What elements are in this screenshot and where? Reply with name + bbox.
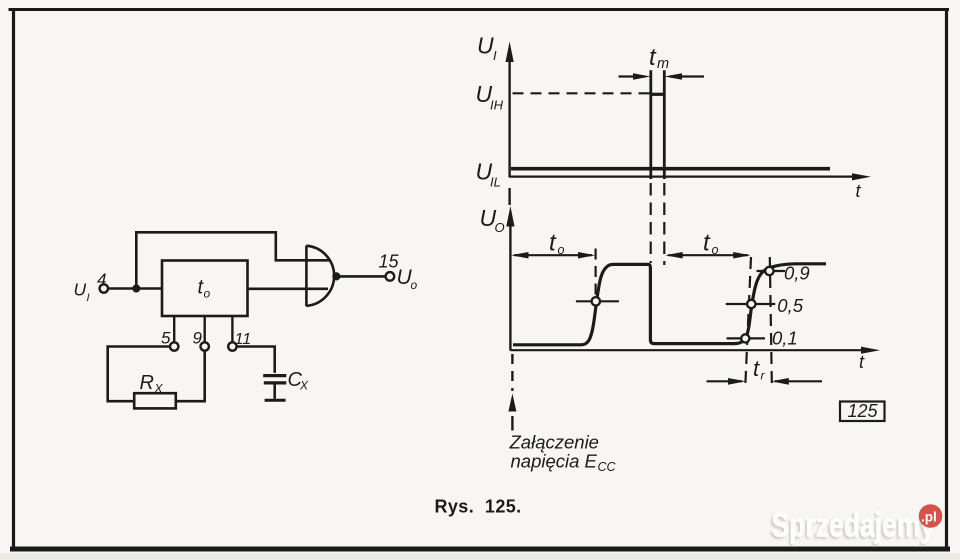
capacitor lead — [273, 383, 276, 399]
gate G1 flat edge — [305, 246, 308, 307]
pin 9 terminal — [201, 342, 209, 350]
pulse left edge — [649, 70, 652, 179]
svg-text:o: o — [204, 287, 211, 301]
svg-text:o: o — [558, 243, 565, 257]
border frame left — [12, 8, 15, 549]
capacitor CX bottom plate — [264, 381, 287, 384]
svg-text:.pl: .pl — [921, 510, 937, 525]
label tm — [649, 44, 669, 72]
wire pin5 to resistor — [108, 347, 170, 402]
svg-text:X: X — [154, 382, 164, 396]
border frame right — [945, 9, 948, 549]
watermark Sprzedajemy — [770, 506, 936, 546]
label tr — [753, 356, 766, 383]
label to in box — [198, 277, 211, 301]
up arrowhead Ecc — [508, 394, 516, 412]
junction dot input — [132, 285, 140, 293]
label to right — [703, 230, 719, 258]
UO t-axis — [510, 349, 862, 351]
svg-text:t: t — [753, 356, 760, 381]
UO y-axis — [509, 224, 511, 351]
svg-text:I: I — [87, 292, 90, 304]
wire resistor to pin9 — [176, 351, 205, 401]
tick 0.9 — [757, 270, 786, 272]
dashed to edge to circle — [594, 249, 596, 297]
resistor RX body — [134, 393, 176, 408]
wire box to gate — [248, 287, 329, 290]
dashed UIH level — [513, 92, 651, 94]
tick first rise — [576, 300, 619, 302]
dashed 50% line tilted — [745, 257, 751, 388]
svg-text:9: 9 — [193, 329, 203, 348]
label RX — [140, 372, 164, 396]
svg-text:R: R — [140, 372, 154, 394]
node 0.1 — [741, 334, 749, 342]
UI y-axis arrowhead — [506, 42, 514, 63]
pin 11 terminal — [228, 342, 236, 350]
capacitor CX top plate — [263, 374, 286, 377]
svg-text:U: U — [477, 33, 494, 59]
UI t-axis arrowhead — [852, 173, 871, 180]
svg-text:Rys. 125.: Rys. 125. — [435, 497, 522, 517]
tick 0.5 — [726, 303, 776, 305]
dashed t0 origin line — [511, 354, 513, 391]
svg-text:0,5: 0,5 — [777, 295, 803, 316]
svg-text:IL: IL — [490, 175, 501, 190]
UI y-axis — [508, 58, 510, 178]
svg-text:Sprzedajemy: Sprzedajemy — [772, 506, 936, 544]
node 0.5 — [747, 300, 755, 308]
pulse right edge — [663, 70, 666, 179]
svg-text:U: U — [74, 280, 87, 300]
svg-text:o: o — [411, 278, 418, 292]
node 0.9 — [765, 267, 773, 275]
border frame bottom — [10, 547, 950, 552]
tm arrow right — [670, 75, 704, 77]
svg-text:11: 11 — [235, 331, 252, 348]
dashed drop left pulse edge — [650, 183, 652, 263]
node 0.5 first rise — [592, 297, 600, 305]
dash between graphs — [508, 188, 510, 205]
pulse top — [651, 93, 665, 96]
svg-text:IH: IH — [490, 98, 504, 113]
border frame top — [9, 8, 950, 11]
pin 9 lead — [203, 316, 205, 342]
svg-text:napięcia E: napięcia E — [511, 451, 598, 472]
tr dimension left — [707, 380, 743, 382]
wire input to box — [108, 287, 162, 290]
dashed 90% line — [770, 257, 772, 388]
label UI circuit — [74, 280, 90, 305]
monostable U1 box — [162, 261, 248, 317]
node UI input terminal — [100, 284, 108, 292]
tm arrow left — [619, 75, 646, 77]
UO t-axis arrowhead — [861, 347, 880, 354]
pin 5 terminal — [170, 342, 178, 350]
node Uo output terminal — [386, 272, 395, 281]
label UO axis — [480, 205, 505, 235]
UO y-axis arrowhead — [506, 206, 514, 227]
svg-text:0,1: 0,1 — [772, 327, 798, 348]
dash below arrow — [511, 416, 513, 431]
svg-text:I: I — [493, 48, 497, 63]
pin 5 lead — [173, 316, 175, 342]
pin 11 lead — [231, 316, 233, 342]
ground bar — [265, 399, 286, 402]
label to left — [549, 230, 565, 258]
svg-text:o: o — [712, 243, 719, 257]
svg-text:5: 5 — [161, 329, 171, 348]
junction dot gate output — [332, 272, 340, 280]
dashed drop right pulse edge — [663, 183, 665, 265]
tick 0.1 — [727, 337, 766, 339]
svg-text:4: 4 — [97, 270, 106, 289]
label UIH — [476, 81, 504, 113]
watermark .pl badge — [919, 504, 943, 528]
figure number box 125 — [840, 402, 885, 422]
label UIL — [476, 159, 501, 190]
wire pin11 to capacitor — [237, 347, 275, 373]
tr dimension right — [775, 380, 822, 382]
UI signal baseline — [511, 167, 830, 171]
left to dimension line — [514, 254, 592, 256]
svg-text:m: m — [657, 56, 669, 72]
label CX — [288, 369, 310, 393]
svg-text:X: X — [299, 379, 309, 393]
label Uo circuit — [397, 266, 418, 292]
svg-text:Załączenie: Załączenie — [509, 432, 599, 453]
svg-text:125: 125 — [848, 401, 879, 421]
gate G1 arc — [306, 246, 334, 306]
svg-text:0,9: 0,9 — [784, 263, 810, 284]
svg-text:CC: CC — [598, 460, 617, 474]
UI t-axis — [510, 176, 855, 178]
svg-text:O: O — [495, 220, 505, 235]
right to dimension line — [668, 254, 748, 256]
UO signal waveform — [513, 264, 826, 345]
wire gate to output — [336, 275, 385, 278]
wire feedback top — [136, 232, 329, 288]
label UI axis — [477, 33, 497, 64]
